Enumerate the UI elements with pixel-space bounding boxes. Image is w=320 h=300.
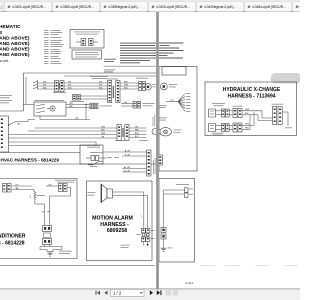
x-change solenoid label top [212,102,225,105]
stack side labels [137,233,141,236]
alarm connector pair upper [141,229,150,233]
to compressor label [100,105,112,108]
solenoid B plug [222,124,230,132]
wire row2 [64,85,108,87]
faint dashes right page [200,265,298,266]
svg-text:MOTION ALARM: MOTION ALARM [92,216,133,222]
legend box: connectors shown upside down note [72,50,102,59]
optional accessory stub connector [70,95,108,103]
ground symbol [47,252,53,257]
b+ electric note [160,117,168,120]
connector block CB-4 right [116,81,120,103]
connector pair B [233,123,242,132]
blower label [136,77,148,80]
wire BLA [38,88,55,90]
svg-text:ER 2005: ER 2005 [0,60,9,63]
CB-4 rotated label [113,86,114,98]
speaker wire minus [113,196,148,229]
wires A with labels [229,110,233,112]
long wire GRN [9,134,118,136]
rotated note near clutch [153,115,155,126]
back-up alarm horn [158,128,182,136]
rotated text right page edge lower [153,158,156,174]
connector A tiny label [233,105,243,108]
freeze protection thermostat box [80,145,103,164]
output wire [282,112,288,126]
inline seal ovals [142,233,145,236]
sheet fold line upper [104,65,157,67]
condenser manifold bracket [40,245,62,252]
compressor connector stack top [43,226,52,232]
B+ drop wires [44,204,46,226]
label strip line [0,152,80,154]
svg-text:A 17B: A 17B [125,149,131,152]
notes text right of divider [160,43,184,59]
compressor clutch symbol at page edge [152,129,158,135]
last page button [157,290,162,295]
left tiny note [160,104,167,107]
wire LTB lower [40,119,90,121]
switch output wires [66,104,90,106]
note wire lte to optional light harness [90,75,108,78]
svg-text:YEL: YEL [43,81,46,83]
accessory harness boundary box [159,67,197,172]
svg-text:GRN: GRN [101,133,106,135]
solenoid A plug [222,109,230,117]
wire LTG [11,185,32,187]
svg-text:( AND ABOVE): ( AND ABOVE) [0,35,30,41]
solenoid A [209,109,222,117]
svg-text:Bs 17B: Bs 17B [124,170,131,172]
svg-text:ORG: ORG [101,126,106,128]
floating gray toolbar overlay [271,73,302,84]
switch contacts [38,104,45,113]
horn symbol circle [160,83,177,90]
alarm speaker symbol [101,184,113,203]
compressor switch connector pair [59,184,68,192]
svg-text:LTG: LTG [15,184,19,186]
connector pair A [233,109,242,118]
vertical wire labels [42,211,49,213]
page number box [111,289,145,296]
connector block CB-4 left [108,81,112,103]
svg-text:2 of 2: 2 of 2 [186,281,194,285]
down wire [163,190,165,228]
compressor connector stack bottom [43,239,52,245]
speaker wire plus [113,192,144,229]
wires into lower right block [103,151,147,153]
svg-text:HYDRAULIC X-CHANGE: HYDRAULIC X-CHANGE [223,87,281,93]
wires B with labels [229,124,233,126]
blower motor connector [139,82,142,91]
wire row1 [64,82,108,84]
wires to connectors [164,189,185,191]
ac thermostat stub [121,102,155,109]
wire top run [64,75,157,77]
to motion alarm tiny label [176,183,189,186]
ground symbol right page [161,248,173,252]
svg-text:SS - 6814228: SS - 6814228 [0,241,25,247]
svg-text:HEMATIC: HEMATIC [0,24,21,30]
junction drop wire [85,105,87,120]
svg-text:( AND ABOVE): ( AND ABOVE) [0,41,30,47]
disabled buttons [166,290,172,296]
svg-text:YEL: YEL [99,81,102,83]
air conditioner harness boundary box [0,179,77,259]
wire YEL [38,82,55,84]
lower accessory boundary box [159,179,195,263]
left notes tiny text [0,95,12,103]
bottom tiny label [121,244,130,247]
example connector pair [81,39,86,46]
bus return wire 2 [9,145,101,147]
wire labels mid [68,81,103,89]
connector C1 pair [53,81,66,93]
x-change solenoid label bottom [212,132,224,135]
thermostat pair rotated label [122,128,123,137]
sheet title text (cut off at left edge) [0,24,30,58]
wire row3 [64,88,108,90]
svg-text:v-0421-d.pdf (SECUR...: v-0421-d.pdf (SECUR... [12,5,46,9]
svg-text:v-0380-d.pdf (SECUR...: v-0380-d.pdf (SECUR... [60,5,94,9]
cab and washer motor switch box [34,102,66,116]
ac compressor switch label [55,179,76,182]
svg-text:GRN: GRN [245,109,250,111]
general notes text block [104,43,183,64]
page divider [156,12,159,289]
wire to ground [163,239,165,248]
svg-text:YEL: YEL [68,81,71,83]
svg-text:HVAC HARNESS - 6814229: HVAC HARNESS - 6814229 [1,158,60,163]
wire LTG to switch [46,185,59,187]
svg-text:v-0420legend-2.pdf (...: v-0420legend-2.pdf (... [204,5,236,9]
motion alarm tiny label [88,191,96,194]
blower feed wires [120,82,139,84]
wire VIO [38,85,55,87]
junction dot [85,104,86,105]
svg-text:( AND ABOVE): ( AND ABOVE) [0,52,30,58]
svg-text:HARNESS - 7113694: HARNESS - 7113694 [227,94,275,100]
PAGE CONTENT RIGHT [0,43,302,285]
wire labels [43,81,47,89]
tail wires [143,241,145,245]
HVAC harness boundary box [0,73,157,164]
svg-text:YEL: YEL [17,124,20,126]
long wire LTB [9,137,118,139]
svg-text:YEL: YEL [135,126,138,128]
svg-text:6809258: 6809258 [107,228,127,234]
condenser fan pressure switch label [59,250,72,253]
svg-text:CONDITIONER: CONDITIONER [0,234,26,240]
compressor connector stack label [44,233,51,238]
wire TAN [11,189,34,191]
inner title box [162,67,186,76]
svg-text:): ) [1,5,2,9]
first page button [96,291,101,296]
inner wire drop [25,77,27,105]
edge connector block [158,155,163,165]
wire into switch from left edge [24,104,35,106]
PAGE CONTENT LEFT [0,24,30,63]
svg-text:ORG: ORG [124,84,129,86]
svg-text:B 17B: B 17B [125,154,131,156]
svg-text:v-06: v-06 [300,5,301,9]
cab fan switch 3-prong connector [33,80,38,90]
TABBAR [0,0,313,12]
thermostat connector pair [117,125,129,141]
washer motor M [50,106,55,111]
cab and washer motor switch label [34,99,64,102]
TOOLBAR [0,289,300,300]
main connector block pair [273,107,283,125]
svg-text:v-0420-d.pdf (SECUR...: v-0420-d.pdf (SECUR... [156,5,190,9]
splice fan-out [166,93,191,112]
tiny note under fold line [104,69,115,72]
next page button [150,290,153,295]
thermal fuse resistor [30,190,46,205]
lower right connector block on edge [147,150,152,176]
inline connector stack [161,228,166,240]
blower motor M [145,84,151,90]
left bulkhead connector block [0,116,9,152]
solenoid B [209,124,222,132]
bus return wire 1 [9,142,97,145]
legend box: wires connect by letter across connectors [70,30,104,49]
routing to main connector [250,111,273,130]
alarm feed connectors [185,188,189,192]
long wire ORG [35,127,117,129]
ac inlet connector pair [3,184,12,193]
alarm connector pair lower [141,237,150,241]
svg-text:1 / 2: 1 / 2 [113,291,122,296]
svg-text:HARNESS -: HARNESS - [100,222,129,228]
labels above freeze box [115,139,125,142]
motion alarm harness boundary box [87,181,153,261]
switch diagonal off block [8,120,35,126]
small connector cluster above bottom line [86,152,119,167]
svg-text:v-0484-d.pdf (SECUR...: v-0484-d.pdf (SECUR... [252,5,286,9]
svg-text:( AND ABOVE): ( AND ABOVE) [0,47,30,53]
faint sheet edge line left page [0,265,155,267]
hydraulic x-change harness boundary box [205,82,297,136]
svg-text:YEL: YEL [124,102,127,104]
main connector label [272,103,284,106]
svg-text:As 17B: As 17B [124,166,131,169]
wire from switch down [50,188,71,205]
svg-text:ORG: ORG [245,124,250,126]
svg-text:B+: B+ [42,211,44,213]
prev page button [105,291,108,296]
svg-text:v-0380legend-2.pdf (...: v-0380legend-2.pdf (... [108,5,140,9]
long wire RED [28,130,117,132]
harness label MOTION ALARM HARNESS - 6809258 [92,216,133,235]
wires to compressor clutch [129,127,147,129]
compressor feed connector [90,103,98,109]
wires below box bottom [122,168,147,170]
wire color legend list [44,30,64,64]
svg-text:LTG: LTG [48,184,52,186]
